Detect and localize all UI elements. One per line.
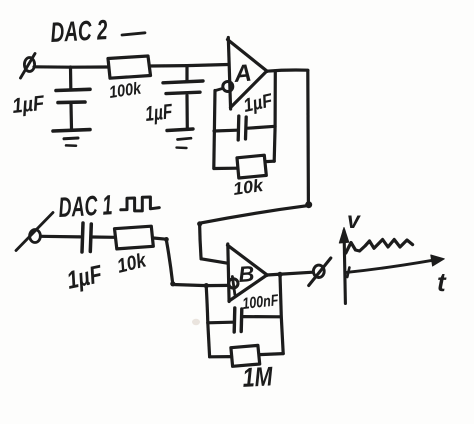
inverting input bubble (B) xyxy=(229,279,238,288)
capacitor C5 100nF feedback xyxy=(208,308,281,332)
label A xyxy=(232,60,253,88)
dc-level symbol (dash) xyxy=(122,33,145,35)
capacitor C3 1uF feedback xyxy=(214,116,275,140)
wire J1 to R1 xyxy=(34,65,108,69)
resistor R2 10k feedback xyxy=(214,155,274,178)
long feedback wire A output to B input xyxy=(197,71,312,264)
origin tick xyxy=(347,268,349,278)
value 1uF (C2) xyxy=(144,100,174,126)
terminal J1 DAC2 input xyxy=(21,54,36,79)
label B xyxy=(238,261,256,287)
value 1uF (C3) xyxy=(242,90,276,117)
left feedback rail (A) xyxy=(214,91,215,169)
svg-text:v: v xyxy=(347,207,361,233)
output wire of B xyxy=(267,272,313,275)
svg-text:DAC 1: DAC 1 xyxy=(58,189,114,223)
value 10k (R3) xyxy=(115,249,149,278)
capacitor C2 1uF xyxy=(163,66,203,128)
terminal J2 DAC1 input xyxy=(16,213,53,251)
value 10k (R2) xyxy=(232,175,266,199)
graph v-axis xyxy=(339,228,349,304)
faint smudge xyxy=(192,319,200,325)
graph t-axis xyxy=(345,255,444,273)
label DAC 1 xyxy=(58,189,114,223)
svg-text:1M: 1M xyxy=(242,361,274,393)
output wire of A xyxy=(267,70,308,71)
axis label t xyxy=(437,267,447,297)
inverting input bubble (A) xyxy=(223,82,233,92)
value 100nF (C5) xyxy=(242,292,281,313)
value 1uF (C4) xyxy=(64,260,105,295)
svg-text:1µF: 1µF xyxy=(144,100,174,126)
junction on B output xyxy=(277,272,282,277)
resistor R3 10k xyxy=(115,226,154,249)
svg-text:A: A xyxy=(232,60,253,88)
wire R1 to op-amp A input xyxy=(150,65,228,67)
wire C4 to R3 xyxy=(93,235,115,239)
wire R3 to op-amp B input xyxy=(153,237,229,286)
stub bubble to feedback rail xyxy=(216,88,224,90)
value 100k (R1) xyxy=(108,79,144,102)
capacitor C4 1uF series xyxy=(82,223,91,252)
op-amp U2 B xyxy=(228,244,268,302)
svg-text:1µF: 1µF xyxy=(11,92,46,118)
bubble tail stroke xyxy=(232,277,235,295)
value 1M (R4) xyxy=(242,361,274,393)
capacitor C1 1uF xyxy=(56,67,90,129)
square-wave symbol xyxy=(121,197,160,211)
label DAC 2 xyxy=(50,14,109,48)
ground of C1 xyxy=(53,130,90,146)
terminal J3 output xyxy=(309,258,331,286)
resistor R1 100k xyxy=(108,56,151,78)
op-amp U1 A xyxy=(228,38,268,110)
left feedback rail (B) xyxy=(204,283,210,357)
svg-text:B: B xyxy=(238,261,256,287)
wire J2 to C4 xyxy=(41,235,81,239)
right feedback rail (A) xyxy=(274,72,275,162)
sawtooth waveform xyxy=(346,240,413,254)
value 1uF (C1) xyxy=(11,92,46,118)
svg-text:DAC 2: DAC 2 xyxy=(50,14,109,48)
svg-text:t: t xyxy=(437,267,447,297)
axis label v xyxy=(347,207,361,233)
right feedback rail (B) xyxy=(280,275,283,354)
ground of C2 xyxy=(167,129,193,148)
resistor R4 1M feedback xyxy=(210,345,284,366)
